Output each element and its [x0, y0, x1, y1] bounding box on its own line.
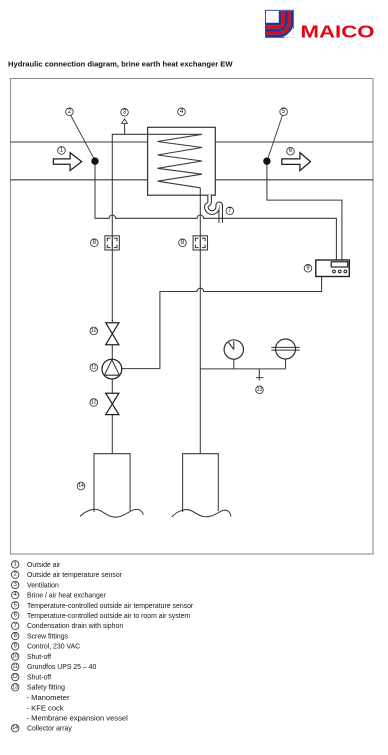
collector array left — [80, 454, 144, 518]
svg-text:3: 3 — [14, 582, 17, 588]
room air arrow 6 — [282, 153, 311, 171]
svg-text:13: 13 — [12, 684, 18, 690]
svg-text:Ventilation: Ventilation — [27, 582, 59, 589]
shut-off valve 10 — [106, 323, 119, 345]
sensor dot 2 — [71, 116, 99, 165]
svg-text:Hydraulic connection diagram,: Hydraulic connection diagram, brine eart… — [8, 60, 233, 69]
sensor dot 5 — [263, 116, 282, 165]
screw fitting right — [193, 236, 207, 250]
wire from sensor 5 to control — [267, 162, 342, 260]
KFE cock — [256, 369, 263, 381]
outside air arrow 1 — [53, 153, 81, 171]
svg-text:1: 1 — [14, 561, 17, 567]
duct bottom wall — [11, 179, 374, 181]
svg-text:- Membrane expansion vessel: - Membrane expansion vessel — [27, 714, 129, 723]
svg-text:7: 7 — [14, 623, 17, 629]
svg-text:10: 10 — [91, 328, 97, 334]
label 8 screw fitting left — [91, 239, 99, 247]
svg-text:Control, 230 VAC: Control, 230 VAC — [27, 644, 80, 651]
svg-text:14: 14 — [12, 725, 18, 731]
svg-text:Shut-off: Shut-off — [27, 674, 51, 681]
svg-text:- KFE cock: - KFE cock — [27, 703, 64, 712]
label 10 shut-off — [90, 327, 98, 335]
siphon — [206, 195, 220, 223]
svg-text:Safety fitting: Safety fitting — [27, 685, 65, 692]
svg-text:14: 14 — [78, 483, 84, 489]
svg-text:Outside air temperature sensor: Outside air temperature sensor — [27, 572, 123, 579]
svg-text:12: 12 — [12, 674, 18, 680]
svg-text:Shut-off: Shut-off — [27, 654, 51, 661]
screw fitting left — [105, 236, 119, 250]
brine return pipe (right riser) — [199, 188, 201, 454]
membrane expansion vessel — [271, 339, 299, 359]
svg-text:Temperature-controlled outside: Temperature-controlled outside air tempe… — [27, 603, 194, 610]
svg-text:- Manometer: - Manometer — [27, 693, 71, 702]
control unit 9 — [316, 260, 350, 277]
label 9 control — [304, 265, 312, 273]
svg-text:13: 13 — [257, 387, 263, 393]
svg-text:6: 6 — [14, 613, 17, 619]
svg-text:Screw fittings: Screw fittings — [27, 634, 69, 641]
ventilation branch with arrowhead — [122, 119, 128, 134]
duct top wall — [11, 141, 374, 143]
collector array right — [172, 454, 231, 517]
svg-text:Collector array: Collector array — [27, 726, 72, 733]
svg-text:Grundfos UPS 25 – 40: Grundfos UPS 25 – 40 — [27, 664, 96, 671]
label 4 heat exchanger — [178, 108, 186, 116]
brine supply pipe (left riser) — [112, 134, 147, 453]
label 1 outside air — [58, 147, 66, 155]
svg-text:MAICO: MAICO — [301, 22, 375, 42]
svg-text:10: 10 — [12, 654, 18, 660]
heat exchanger coil — [148, 134, 202, 188]
safety fitting pipe — [200, 359, 285, 369]
svg-text:Condensation drain with siphon: Condensation drain with siphon — [27, 623, 123, 630]
svg-text:Temperature-controlled outside: Temperature-controlled outside air to ro… — [27, 613, 190, 620]
label 7 siphon — [226, 207, 234, 215]
label 8 screw fitting right — [179, 239, 187, 247]
svg-text:Outside air: Outside air — [27, 562, 61, 569]
label 5 sensor — [280, 108, 288, 116]
wire from sensor 2 to control — [95, 162, 336, 260]
label 13 safety fitting — [256, 386, 264, 394]
svg-text:11: 11 — [91, 365, 96, 371]
svg-text:11: 11 — [13, 664, 18, 670]
label 14 collector — [77, 482, 85, 490]
svg-text:8: 8 — [14, 633, 17, 639]
legend — [12, 561, 19, 568]
svg-text:5: 5 — [14, 602, 17, 608]
svg-text:12: 12 — [91, 400, 97, 406]
svg-text:2: 2 — [14, 572, 17, 578]
label 6 room air — [287, 147, 295, 155]
label 11 pump — [90, 364, 98, 372]
MAICO logo icon — [266, 10, 294, 38]
pump 11 — [102, 359, 122, 379]
heat exchanger U4 box — [148, 127, 216, 195]
svg-text:9: 9 — [14, 643, 17, 649]
shut-off valve 12 — [106, 393, 119, 414]
svg-text:Brine / air heat exchanger: Brine / air heat exchanger — [27, 593, 107, 600]
label 2 sensor — [66, 108, 74, 116]
manometer — [224, 340, 243, 359]
label 12 shut-off — [90, 399, 98, 407]
label 3 ventilation — [121, 109, 129, 117]
control cable to pump — [122, 277, 322, 369]
